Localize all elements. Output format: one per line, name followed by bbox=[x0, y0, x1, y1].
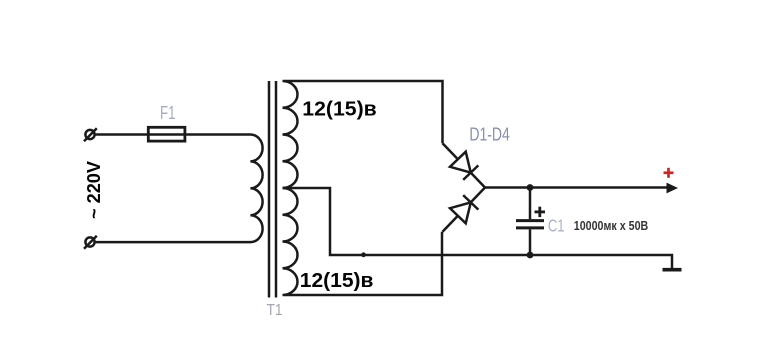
svg-text:F1: F1 bbox=[160, 103, 176, 123]
svg-text:12(15)в: 12(15)в bbox=[300, 270, 374, 292]
svg-text:D1-D4: D1-D4 bbox=[469, 124, 510, 145]
svg-text:12(15)в: 12(15)в bbox=[302, 98, 377, 120]
svg-text:~ 220V: ~ 220V bbox=[84, 161, 104, 219]
svg-text:10000мк x 50В: 10000мк x 50В bbox=[574, 218, 649, 233]
svg-text:C1: C1 bbox=[548, 216, 565, 236]
svg-text:T1: T1 bbox=[267, 302, 283, 319]
